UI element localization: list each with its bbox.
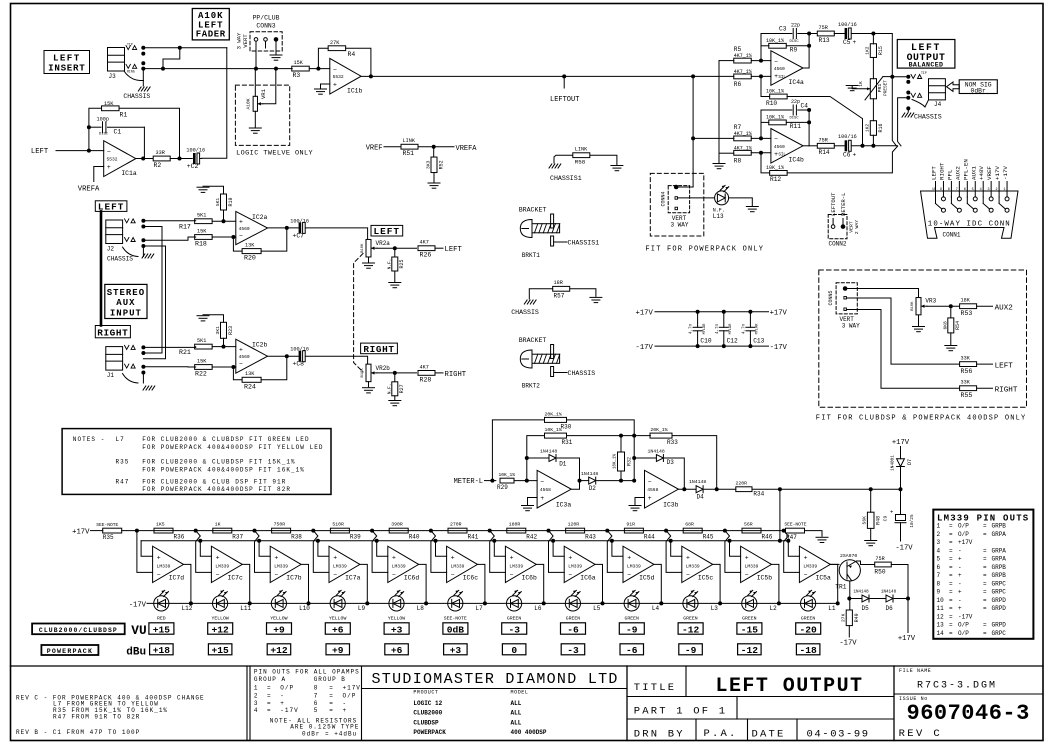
resistor R28 [418, 371, 435, 376]
svg-text:P.A.: P.A. [704, 728, 738, 740]
wire [666, 531, 682, 573]
svg-text:R6: R6 [734, 81, 742, 88]
svg-text:-17V: -17V [636, 344, 654, 352]
svg-text:VR2b: VR2b [376, 365, 391, 372]
capacitor C10 [696, 310, 700, 314]
svg-text:14: 14 [937, 630, 945, 637]
svg-text:YELLOW: YELLOW [211, 616, 228, 622]
svg-text:CLUB2000: CLUB2000 [413, 710, 442, 717]
svg-text:GRPA: GRPA [992, 531, 1007, 538]
svg-text:−: − [745, 571, 749, 578]
svg-text:R37: R37 [232, 534, 243, 541]
wire [196, 531, 212, 573]
svg-text:L9: L9 [358, 605, 366, 612]
wire [830, 563, 839, 565]
wire [212, 366, 236, 368]
svg-text:STEREO: STEREO [107, 288, 145, 298]
svg-text:RED: RED [157, 616, 166, 622]
wire [377, 372, 416, 374]
table LM339 PIN OUTS [933, 510, 1033, 639]
svg-text:C5: C5 [843, 39, 851, 46]
svg-text:+: + [107, 164, 111, 171]
svg-text:+: + [745, 555, 749, 562]
box FIT FOR CLUBDSP [819, 270, 1027, 407]
svg-text:+3: +3 [450, 645, 462, 656]
svg-text:8: 8 [937, 580, 941, 587]
svg-text:7: 7 [314, 692, 319, 699]
svg-text:−: − [510, 571, 514, 578]
svg-text:+17V: +17V [72, 529, 90, 537]
svg-text:BRACKET: BRACKET [519, 337, 547, 344]
wire [301, 564, 308, 603]
ground at CONN3 [270, 54, 282, 56]
wire [184, 564, 191, 603]
wire [318, 48, 328, 68]
svg-text:RIGHT: RIGHT [995, 387, 1018, 395]
label CLUB2000/CLUBDSP [32, 624, 125, 635]
svg-text:=: = [983, 556, 987, 563]
svg-text:4560: 4560 [774, 144, 785, 150]
resistor R5 [734, 58, 752, 63]
svg-text:−: − [804, 571, 808, 578]
svg-text:PP/CLUB: PP/CLUB [253, 15, 280, 22]
svg-text:GRPA: GRPA [992, 556, 1007, 563]
svg-text:GREEN: GREEN [624, 616, 639, 622]
svg-text:=: = [267, 685, 272, 692]
svg-text:+: + [890, 509, 893, 516]
svg-text:390R: 390R [391, 522, 403, 528]
svg-text:+: + [239, 347, 243, 354]
label RIGHT aux [361, 343, 398, 354]
svg-text:R28: R28 [420, 376, 432, 383]
svg-text:ALL: ALL [511, 710, 522, 717]
svg-text:1K: 1K [215, 522, 221, 528]
svg-text:=: = [949, 531, 953, 538]
svg-text:+: + [157, 555, 161, 562]
svg-text:1N4148: 1N4148 [581, 471, 598, 477]
svg-text:GRPD: GRPD [992, 597, 1007, 604]
svg-text:R4: R4 [348, 51, 356, 58]
svg-text:R40: R40 [409, 534, 420, 541]
svg-text:750R: 750R [274, 522, 286, 528]
svg-text:9607046-3: 9607046-3 [907, 701, 1030, 726]
svg-text:LOGIC TWELVE ONLY: LOGIC TWELVE ONLY [236, 150, 313, 158]
svg-text:+: + [216, 555, 220, 562]
wire [761, 121, 769, 123]
svg-text:100/16: 100/16 [838, 134, 857, 140]
svg-text:6K8: 6K8 [942, 321, 948, 330]
resistor R31 [545, 433, 567, 438]
resistor R10 [770, 94, 788, 99]
svg-text:−: − [107, 149, 111, 156]
svg-text:+: + [510, 555, 514, 562]
comparator IC5a [799, 546, 830, 582]
svg-text:+: + [648, 495, 652, 502]
svg-text:=: = [983, 597, 987, 604]
wire [607, 531, 623, 573]
svg-text:−: − [568, 571, 572, 578]
svg-text:D3: D3 [667, 459, 675, 466]
svg-text:CHASSIS: CHASSIS [914, 114, 942, 121]
svg-text:4K7_1%: 4K7_1% [734, 131, 752, 137]
svg-text:PR1: PR1 [877, 84, 883, 93]
svg-text:LM339: LM339 [333, 563, 347, 569]
comparator IC6b [505, 546, 536, 582]
svg-text:LM339: LM339 [627, 563, 641, 569]
svg-text:GRPC: GRPC [992, 630, 1007, 637]
svg-text:5: 5 [937, 556, 941, 563]
svg-text:+: + [686, 555, 690, 562]
LED L3 [683, 596, 698, 611]
svg-text:10K_1%: 10K_1% [766, 89, 784, 95]
comparator IC7a [329, 546, 360, 582]
svg-text:R25: R25 [399, 259, 405, 268]
svg-text:+17V: +17V [636, 310, 654, 318]
ground at R57 [590, 296, 602, 298]
svg-text:5K1: 5K1 [215, 198, 221, 207]
svg-text:LM339: LM339 [745, 563, 759, 569]
wire [805, 531, 823, 537]
capacitor C6 [834, 145, 844, 147]
svg-text:MYLAR: MYLAR [703, 323, 707, 335]
svg-text:L12: L12 [182, 605, 193, 612]
ground at R54 [945, 345, 957, 347]
wire [718, 61, 720, 154]
LED L10 [271, 596, 286, 611]
svg-text:15K: 15K [197, 228, 207, 234]
LED L12 [154, 596, 169, 611]
svg-text:1N4148: 1N4148 [881, 591, 897, 595]
svg-text:R55: R55 [961, 392, 973, 399]
svg-text:=: = [949, 597, 953, 604]
svg-text:B10K: B10K [361, 243, 365, 253]
svg-text:AUX2: AUX2 [995, 305, 1014, 313]
LED L7 [448, 596, 463, 611]
svg-text:2 WAY: 2 WAY [854, 220, 860, 235]
svg-text:−: − [540, 479, 544, 486]
wire [678, 488, 696, 490]
svg-text:=: = [983, 547, 987, 554]
svg-text:RING: RING [127, 70, 135, 74]
svg-text:−: − [774, 58, 778, 65]
svg-text:O/P: O/P [280, 685, 294, 692]
resistor R26 [418, 246, 435, 251]
svg-text:75R: 75R [875, 556, 884, 562]
svg-text:20K_1%: 20K_1% [545, 411, 562, 417]
diode D3 [634, 457, 656, 459]
svg-text:L3: L3 [711, 605, 719, 612]
svg-text:+C2: +C2 [187, 163, 199, 170]
resistor R17 [195, 219, 213, 224]
op-amp IC2a [236, 211, 268, 244]
svg-text:1N4148: 1N4148 [689, 479, 706, 485]
svg-text:FOR POWERPACK 400&400DSP FIT Y: FOR POWERPACK 400&400DSP FIT YELLOW LED [142, 444, 323, 451]
svg-text:4K7_1%: 4K7_1% [734, 53, 752, 59]
svg-text:+48V: +48V [978, 166, 985, 180]
svg-text:+: + [343, 707, 348, 714]
svg-text:3 WAY: 3 WAY [670, 222, 688, 229]
svg-text:VREFA: VREFA [456, 145, 478, 153]
svg-text:−: − [648, 479, 652, 486]
svg-text:−: − [157, 571, 161, 578]
svg-text:ALL: ALL [511, 700, 522, 707]
connector J2 [106, 220, 123, 244]
op-amp IC3b [645, 470, 679, 508]
wire meter out [752, 488, 901, 490]
wire thick stem [100, 211, 103, 325]
svg-text:4: 4 [937, 547, 941, 554]
svg-text:LEFT: LEFT [931, 166, 938, 180]
svg-text:R9: R9 [790, 46, 798, 53]
svg-text:J4: J4 [934, 101, 942, 108]
LED L4 [624, 596, 639, 611]
svg-text:4568: 4568 [540, 487, 551, 493]
wire [163, 48, 180, 69]
wire LED rail [147, 602, 838, 604]
ground at L13 [746, 206, 758, 208]
comparator IC6c [447, 546, 478, 582]
svg-text:CHASSIS: CHASSIS [568, 370, 596, 377]
svg-text:GROUP B: GROUP B [314, 676, 346, 683]
svg-text:VU: VU [131, 623, 146, 638]
table cell dBu 0 [502, 644, 526, 655]
svg-text:15K: 15K [197, 358, 207, 364]
svg-text:R22: R22 [195, 370, 207, 377]
svg-text:=: = [329, 685, 334, 692]
wire [372, 531, 388, 573]
svg-text:=: = [329, 692, 334, 699]
svg-text:GRPC: GRPC [992, 589, 1007, 596]
svg-text:R33: R33 [667, 439, 678, 446]
label LEFT [95, 201, 127, 212]
svg-text:R38: R38 [291, 534, 302, 541]
svg-text:R47: R47 [116, 478, 130, 485]
svg-text:4.7n: 4.7n [742, 323, 746, 334]
svg-text:9: 9 [937, 589, 941, 596]
wire [751, 152, 771, 154]
wire [212, 220, 236, 222]
ground at IC3b [635, 498, 645, 505]
svg-text:FOR CLUB2000 & CLUBDSP FIT GRE: FOR CLUB2000 & CLUBDSP FIT GREEN LED [142, 436, 309, 443]
table cell dBu -6 [620, 644, 644, 655]
opamp pinouts note box [254, 668, 361, 737]
wire [847, 289, 918, 298]
wire [254, 69, 256, 97]
svg-text:R48: R48 [876, 516, 882, 525]
svg-text:+6: +6 [391, 645, 403, 656]
wire [492, 539, 496, 543]
table NOTES [62, 429, 331, 495]
svg-text:R15: R15 [878, 46, 884, 55]
svg-text:+: + [958, 556, 962, 563]
resistor R1 [102, 106, 120, 111]
svg-text:-: - [958, 564, 962, 571]
svg-text:GRPB: GRPB [992, 564, 1007, 571]
capacitor C7 [299, 222, 302, 233]
svg-text:GRPB: GRPB [992, 572, 1007, 579]
wire [141, 157, 145, 161]
ground at R48 [865, 540, 877, 542]
wire [571, 458, 579, 489]
svg-text:=: = [983, 622, 987, 629]
svg-text:D4: D4 [697, 494, 705, 501]
svg-text:FILE NAME: FILE NAME [899, 668, 931, 674]
svg-text:VR1: VR1 [260, 88, 267, 99]
svg-text:BALANCED: BALANCED [909, 62, 944, 69]
svg-text:R1: R1 [120, 112, 128, 119]
svg-text:15K: 15K [294, 60, 304, 66]
svg-text:FOR POWERPACK 400&400DSP FIT 1: FOR POWERPACK 400&400DSP FIT 16K_1% [142, 467, 305, 474]
chassis ground at J1 [123, 374, 139, 384]
svg-text:IC5b: IC5b [757, 574, 773, 581]
svg-text:+17V: +17V [770, 310, 788, 318]
svg-text:NOTES -: NOTES - [73, 436, 106, 443]
resistor R55 [960, 386, 977, 391]
svg-text:CLUB2000/CLUBDSP: CLUB2000/CLUBDSP [39, 627, 118, 634]
wire [786, 539, 790, 543]
label STEREO AUX INPUT [105, 284, 147, 318]
svg-text:GRPC: GRPC [992, 580, 1007, 587]
potentiometer VR2b [366, 364, 371, 382]
svg-text:-17V: -17V [895, 545, 913, 553]
resistor R16 [870, 121, 876, 136]
svg-text:L1: L1 [828, 605, 836, 612]
svg-text:IC7d: IC7d [169, 574, 185, 581]
svg-text:75R: 75R [819, 137, 828, 143]
svg-text:10-WAY IDC CONN: 10-WAY IDC CONN [928, 220, 1011, 228]
svg-text:100/16: 100/16 [290, 347, 309, 353]
svg-text:=: = [949, 523, 953, 530]
svg-text:6: 6 [937, 564, 941, 571]
table cell VU 0dB [443, 623, 468, 634]
svg-text:R3: R3 [293, 72, 301, 79]
svg-text:R13: R13 [819, 37, 830, 44]
diode D1 [527, 457, 549, 459]
svg-text:GROUP A: GROUP A [254, 676, 286, 683]
svg-text:C9: C9 [883, 516, 889, 522]
wire [514, 480, 537, 482]
ground at R19 [197, 186, 209, 188]
svg-text:IC7a: IC7a [345, 574, 361, 581]
wire [851, 145, 897, 147]
connector J1 [106, 347, 123, 371]
svg-text:27K: 27K [841, 613, 847, 622]
svg-text:LM339: LM339 [686, 563, 700, 569]
wire [751, 137, 771, 139]
svg-text:VERT: VERT [242, 34, 249, 48]
wire [375, 539, 379, 543]
svg-text:=: = [949, 613, 953, 620]
svg-text:13: 13 [937, 622, 945, 629]
resistor R39 [330, 528, 349, 533]
svg-text:22p: 22p [791, 99, 800, 105]
comparator IC5d [623, 546, 654, 582]
svg-text:4K7: 4K7 [420, 240, 429, 246]
svg-text:-: - [958, 597, 962, 604]
op-amp IC2b [236, 339, 268, 373]
svg-text:CHASSIS: CHASSIS [511, 309, 539, 316]
wire meter bus [141, 540, 788, 542]
svg-text:-12: -12 [741, 645, 759, 656]
svg-text:L2: L2 [770, 605, 778, 612]
wire [669, 539, 673, 543]
svg-text:IC3b: IC3b [663, 502, 679, 509]
svg-text:CONN4: CONN4 [661, 191, 667, 206]
capacitor C13 [748, 310, 752, 314]
wire [679, 186, 694, 188]
svg-text:+18: +18 [153, 645, 171, 656]
table cell VU -12 [678, 623, 703, 634]
comparator IC6d [388, 546, 419, 582]
svg-text:R19: R19 [228, 197, 234, 206]
LED L8 [389, 596, 404, 611]
svg-text:18K: 18K [961, 298, 971, 304]
connector CONN5 [836, 283, 857, 314]
svg-text:GREEN: GREEN [683, 616, 698, 622]
wire [434, 539, 438, 543]
svg-text:C10: C10 [700, 338, 711, 345]
svg-text:LEFT: LEFT [995, 362, 1014, 370]
op-amp IC1b [330, 58, 361, 94]
svg-text:GREEN: GREEN [742, 616, 757, 622]
connector J3 [108, 48, 125, 72]
svg-text:−: − [627, 571, 631, 578]
svg-text:LM339: LM339 [451, 563, 465, 569]
svg-text:=: = [949, 556, 953, 563]
wire [772, 564, 779, 603]
wire [309, 68, 330, 70]
svg-text:R35: R35 [103, 534, 114, 541]
op-amp IC3a [537, 470, 571, 508]
svg-text:-17V: -17V [839, 640, 857, 648]
svg-text:L7: L7 [116, 436, 125, 443]
svg-text:PART 1 OF 1: PART 1 OF 1 [634, 706, 728, 718]
svg-text:PIN OUTS FOR ALL OPAMPS: PIN OUTS FOR ALL OPAMPS [254, 668, 360, 675]
LED L6 [506, 596, 521, 611]
svg-text:-17V: -17V [770, 344, 788, 352]
wire pot gang link [354, 254, 363, 373]
svg-text:56R: 56R [744, 522, 753, 528]
svg-text:=: = [329, 707, 334, 714]
svg-text:0: 0 [511, 645, 517, 656]
svg-text:-3: -3 [567, 645, 579, 656]
svg-text:+: + [958, 572, 962, 579]
LED L5 [565, 596, 580, 611]
table cell dBu -12 [738, 644, 762, 655]
svg-text:PRESET: PRESET [883, 80, 888, 96]
trimmer VR1 [253, 96, 257, 111]
svg-text:TIP: TIP [127, 43, 133, 47]
svg-text:R56: R56 [961, 368, 973, 375]
svg-text:L6: L6 [534, 605, 542, 612]
resistor R54 [950, 306, 952, 318]
svg-text:5: 5 [314, 707, 319, 714]
svg-text:+: + [392, 555, 396, 562]
resistor R45 [683, 528, 702, 533]
capacitor C4 [761, 110, 792, 138]
svg-text:10K_1%: 10K_1% [766, 165, 784, 171]
resistor R50 [875, 562, 892, 567]
wire [891, 565, 908, 633]
svg-text:PFL: PFL [946, 169, 953, 180]
comparator IC7b [270, 546, 301, 582]
svg-text:-9: -9 [626, 625, 638, 636]
svg-text:IC5a: IC5a [816, 574, 832, 581]
svg-text:1K: 1K [858, 81, 864, 87]
wire tip feed [890, 75, 894, 79]
capacitor C1 [87, 125, 91, 129]
svg-text:3 WAY: 3 WAY [842, 323, 860, 330]
